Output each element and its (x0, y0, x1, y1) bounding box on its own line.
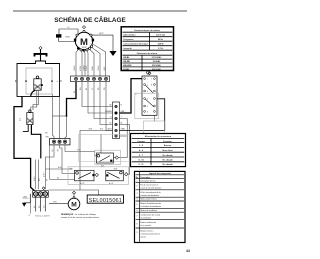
ground (chassis) arrow (109, 51, 116, 56)
svg-text:Consommation électrique: Consommation électrique (123, 43, 148, 46)
svg-text:30-20AL: 30-20AL (153, 60, 162, 63)
svg-text:9: 9 (137, 232, 138, 234)
harness outline around S1 (95, 150, 121, 164)
svg-text:Sens élevé: Sens élevé (162, 150, 173, 152)
svg-text:9 - 11: 9 - 11 (138, 164, 144, 166)
svg-text:21 E-20AL: 21 E-20AL (152, 56, 162, 59)
svg-text:Alimentation du connecteur: Alimentation du connecteur (145, 135, 172, 138)
wire: junction to P3 pin3 (65, 116, 67, 139)
svg-text:J-BLEU: J-BLEU (74, 65, 76, 71)
thermal cutoff component U2 (27, 110, 33, 125)
svg-text:Légende des composants: Légende des composants (149, 172, 171, 175)
svg-text:5: 5 (137, 204, 138, 206)
node diamond 9 under spec table (146, 71, 150, 75)
wires: drops to terminal block (36, 160, 39, 190)
svg-text:SEL0015061: SEL0015061 (89, 198, 122, 204)
svg-text:Alimentation: Alimentation (123, 34, 136, 37)
serial plate SEL0015061 (87, 195, 123, 203)
timer switch levers (145, 85, 153, 106)
wire labels at P2 left (105, 105, 112, 131)
thick wire: timer right to lower run (120, 99, 165, 131)
thick wire: P2 pin2 to timer box (120, 79, 143, 113)
wire colour labels above connector P1 (74, 64, 106, 71)
svg-text:BK/LWH: BK/LWH (123, 65, 131, 67)
svg-text:Fréquence: Fréquence (123, 39, 134, 41)
svg-text:Caractéristiques du moteur: Caractéristiques du moteur (134, 29, 160, 32)
timer pins (144, 78, 156, 113)
svg-text:Fabricants du moteur: Fabricants du moteur (137, 52, 158, 55)
svg-text:S12 20AL: S12 20AL (152, 64, 162, 67)
motor M1 (75, 32, 92, 49)
wires: motor fan-out to connector (76, 44, 106, 76)
wire: P3 pin3 to switch S1 (65, 145, 97, 156)
svg-text:montre la fin de course en pos: montre la fin de course en position bass… (61, 216, 100, 219)
svg-text:BK/BL: BK/BL (123, 57, 130, 59)
svg-text:J15: J15 (109, 105, 112, 107)
svg-text:contacteur/avertisseur et: contacteur/avertisseur et (140, 233, 160, 236)
limit switch S3 (106, 170, 124, 181)
console box (outer) (17, 61, 60, 96)
terminal block TB1 (33, 191, 49, 198)
node diamond above motor M1 (82, 26, 85, 29)
svg-text:BLEU: BLEU (66, 37, 71, 39)
svg-text:Aucune: Aucune (164, 144, 172, 147)
svg-text:B: B (111, 117, 112, 119)
svg-text:chambre de distribution: chambre de distribution (140, 194, 159, 197)
wire: P3 pin1 to terminal feed (45, 145, 54, 189)
svg-text:Condensateur du champ: Condensateur du champ (140, 213, 160, 216)
wire: tap to S2 harness upper (45, 168, 72, 170)
svg-text:8: 8 (137, 223, 138, 225)
wire: to M2 (49, 203, 68, 205)
node diamond above terminal block (42, 187, 45, 190)
svg-text:2 FBLK: 2 FBLK (86, 65, 88, 71)
svg-text:du ventilateur: du ventilateur (140, 216, 151, 219)
harness outline right of P2 (135, 93, 159, 118)
svg-text:4 CBLK: 4 CBLK (80, 65, 82, 71)
wire labels at P2 right (121, 105, 126, 131)
node diamond above timer (148, 72, 151, 75)
wire: timer bottom stub (153, 115, 155, 121)
wire labels below connector P1 (80, 86, 106, 90)
svg-text:J-BLWH: J-BLWH (83, 64, 85, 71)
wire: junction left (52, 115, 66, 117)
svg-text:M: M (80, 37, 88, 48)
wire: U2 left lead (23, 125, 28, 132)
svg-text:Fin de course haute et: Fin de course haute et (140, 183, 158, 186)
thick wire: U2 to junction (31, 125, 40, 159)
wire: y190 run to motor M2 (49, 189, 80, 191)
limit switch S2 (75, 170, 95, 181)
svg-text:5: 5 (147, 106, 148, 108)
svg-text:8 - 10: 8 - 10 (138, 160, 144, 162)
connector P1 (motor plug) (71, 76, 110, 82)
svg-text:SCHÉMA DE CÂBLAGE: SCHÉMA DE CÂBLAGE (54, 15, 126, 24)
motor M2 (68, 198, 80, 210)
svg-text:3: 3 (137, 193, 138, 195)
wire: P2 pin3 to switch S1 (118, 119, 127, 158)
svg-text:Moteur d'entraînement de: Moteur d'entraînement de (140, 202, 161, 205)
svg-text:8: 8 (151, 85, 152, 87)
svg-text:9: 9 (151, 91, 152, 93)
junction (66, 115, 68, 117)
thick wire: U1 to console bottom (31, 90, 36, 96)
svg-text:6: 6 (137, 210, 138, 212)
header rule (13, 10, 187, 12)
wire: P2 pin4 to switch S3 (120, 125, 130, 175)
junction on P2 pin2 (115, 112, 117, 114)
svg-text:la chambre de distribution: la chambre de distribution (140, 205, 161, 208)
svg-text:alarme: alarme (140, 237, 146, 239)
svg-text:2: 2 (147, 85, 148, 87)
hatch inside U1 (34, 84, 40, 90)
svg-text:GRN/WH: GRN/WH (105, 111, 112, 113)
table: caracteristiques du moteur (121, 27, 173, 71)
thick main wire: console to terminal block (14, 96, 34, 190)
svg-text:325 W: 325 W (158, 44, 164, 46)
node diamond above M2 (72, 191, 75, 194)
svg-text:Bouton marche -: Bouton marche - (140, 230, 154, 233)
svg-text:Intensité: Intensité (123, 47, 132, 50)
svg-text:7: 7 (137, 216, 138, 218)
svg-text:J-STR: J-STR (99, 33, 105, 35)
svg-text:BL/BY: BL/BY (123, 69, 130, 71)
svg-text:1 FBLU: 1 FBLU (98, 65, 100, 71)
wire: motor right to ground (92, 35, 113, 51)
console switch component U1 (34, 76, 41, 90)
svg-text:4: 4 (137, 199, 138, 201)
capacitor C1 (56, 34, 61, 37)
svg-text:B: B (57, 81, 59, 82)
console inner harness outline (26, 68, 52, 94)
svg-text:6: 6 (147, 111, 148, 113)
svg-text:Fil de raccordement de la: Fil de raccordement de la (140, 191, 160, 194)
motor side tabs (74, 39, 76, 42)
wire: console right drop (59, 96, 61, 138)
svg-text:Vis chaude: Vis chaude (162, 155, 173, 157)
wire: motor to capacitor loop (59, 29, 78, 42)
svg-text:Vis chaude: Vis chaude (162, 160, 173, 162)
connector P3 (3-pin) (50, 139, 71, 145)
svg-text:Tierra 1, 120 V: Tierra 1, 120 V (35, 215, 50, 218)
table: legende des composants (135, 171, 186, 242)
wire: harness to S1 (100, 134, 102, 153)
svg-text:7: 7 (151, 79, 152, 81)
harness outline centre (79, 134, 132, 161)
svg-text:circuit de sécurité primaire: circuit de sécurité primaire (140, 186, 161, 189)
thick wire: P1 pin1 down-left (67, 82, 77, 116)
svg-text:Description: Description (140, 176, 150, 179)
wire: P2 pin6 stub (120, 135, 127, 137)
svg-text:Moteur de ventilateur: Moteur de ventilateur (140, 209, 157, 212)
svg-text:120 V-CA: 120 V-CA (156, 34, 165, 37)
svg-text:WHT: WHT (70, 169, 74, 171)
svg-text:Moteur auxiliaire de: Moteur auxiliaire de (140, 221, 156, 224)
harness outline around S2 S3 (68, 167, 128, 185)
node diamond 1 at S1 (115, 156, 118, 159)
svg-text:4: 4 (147, 99, 148, 101)
svg-text:Vis chaude: Vis chaude (162, 164, 173, 166)
motor M1 terminals (76, 30, 93, 51)
svg-text:5,7 A: 5,7 A (158, 47, 163, 50)
timer pin labels (147, 79, 152, 114)
wire: P3 pin2 to switch S2 (60, 145, 75, 174)
wires: P1 drops to connector P2 (82, 82, 113, 131)
antenna / control stem symbol (35, 49, 47, 61)
svg-text:44: 44 (186, 249, 190, 253)
timer switch box U3 (142, 76, 157, 115)
svg-text:REMARQUE : Le schéma de câblag: REMARQUE : Le schéma de câblage (61, 213, 97, 216)
svg-text:la vis sans fin: la vis sans fin (140, 225, 151, 227)
svg-text:Fonction: Fonction (163, 140, 172, 143)
tick contacts on inner outline (25, 80, 26, 81)
svg-text:M: M (71, 202, 77, 209)
node diamond above console (39, 46, 42, 49)
wire: P2 pin5 long left loop to label plate (80, 131, 113, 196)
wire: inner box drop to P3 pin1 (52, 94, 54, 139)
svg-text:1: 1 (147, 79, 148, 81)
svg-text:2: 2 (137, 186, 138, 188)
svg-text:S18 20AL: S18 20AL (152, 68, 162, 71)
svg-text:Interrupteur de fins: Interrupteur de fins (140, 180, 155, 183)
svg-text:3: 3 (147, 91, 148, 93)
connector P2 (main harness plug) (113, 102, 120, 139)
svg-text:1/3 HP: 1/3 HP (82, 47, 87, 49)
harness outline below timer (144, 121, 165, 137)
wires: terminal block tails (36, 196, 46, 211)
wire: U1 drops (31, 90, 39, 111)
wire: P3 housing lead lower (49, 145, 74, 179)
svg-text:Moto-contact moteur: Moto-contact moteur (140, 198, 157, 201)
svg-text:BL: BL (110, 123, 112, 125)
svg-text:BK-BR: BK-BR (123, 61, 130, 63)
limit switch S1 (97, 153, 114, 163)
table: alimentation du connecteur (131, 134, 186, 167)
svg-text:WH1: WH1 (45, 136, 49, 138)
svg-text:1: 1 (137, 181, 138, 183)
svg-text:60 Hz: 60 Hz (158, 39, 163, 41)
svg-text:Contact: Contact (137, 140, 145, 143)
